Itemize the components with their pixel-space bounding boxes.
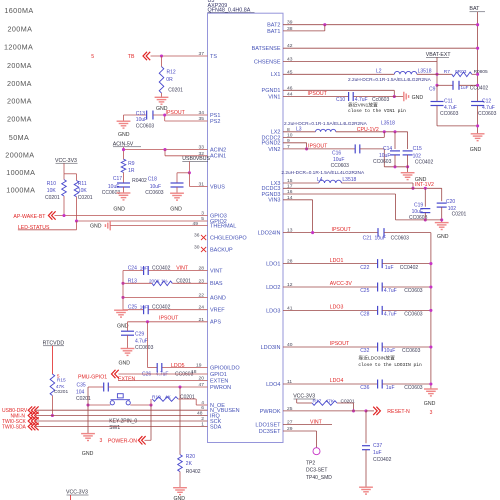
node ACIN-5V on ACIN2 (122, 148, 125, 151)
svg-text:TB: TB (128, 54, 135, 60)
wire R12 bottom lead (161, 93, 163, 97)
wire DCDC2 row (283, 136, 384, 138)
svg-text:VBUS: VBUS (210, 184, 225, 190)
svg-text:PWROK: PWROK (260, 409, 281, 415)
ground C13 (117, 120, 131, 122)
ground C37 (359, 486, 373, 488)
svg-text:L3518: L3518 (418, 69, 432, 75)
svg-text:GND: GND (119, 361, 131, 367)
offpage arrow RESET-N (373, 407, 377, 415)
wire PS1 (153, 114, 208, 116)
node BIAS gnd bus (121, 282, 124, 285)
wire gnd bus left (122, 271, 124, 311)
svg-text:C15: C15 (413, 146, 422, 152)
node C19 bottom (424, 218, 427, 221)
svg-text:ACIN2: ACIN2 (210, 148, 226, 154)
no-connect BACKUP (201, 247, 206, 252)
node ACIN1 join (163, 148, 166, 151)
wire R12 top lead (161, 56, 163, 67)
svg-text:GND: GND (424, 401, 436, 407)
offpage arrow POWER-ON (138, 436, 142, 444)
svg-text:BAT1: BAT1 (267, 29, 280, 35)
node LDO4 rail (429, 382, 432, 385)
svg-text:PGND1: PGND1 (262, 88, 281, 94)
svg-text:R0402: R0402 (186, 469, 201, 475)
node VIN3 on LDO24IN (311, 231, 314, 234)
svg-text:R0402: R0402 (132, 178, 147, 184)
svg-text:LDO3: LDO3 (330, 305, 344, 311)
wire N_OE stub (196, 404, 207, 406)
wire C29 top lead (127, 322, 129, 331)
svg-text:EXTEN: EXTEN (118, 377, 136, 383)
svg-text:PMU-GPIO1: PMU-GPIO1 (78, 375, 107, 381)
resistor R15 (50, 374, 55, 396)
wire C18 to ground (176, 187, 178, 193)
svg-text:TP40_SMD: TP40_SMD (306, 475, 332, 481)
svg-text:CC0603: CC0603 (402, 348, 421, 354)
node C14 top (393, 130, 396, 133)
svg-text:DC3SET: DC3SET (259, 429, 281, 435)
svg-text:GPIO0/LDO: GPIO0/LDO (210, 365, 240, 371)
ground battery caps (471, 133, 485, 135)
svg-text:GPIO1: GPIO1 (210, 372, 227, 378)
svg-text:SW1: SW1 (109, 425, 120, 431)
offpage arrow USB0-DRV (28, 406, 32, 414)
svg-text:GND: GND (117, 323, 129, 329)
svg-text:CC0603: CC0603 (145, 190, 164, 196)
svg-text:GND: GND (412, 95, 424, 101)
wire GPIO2 (77, 220, 208, 222)
svg-text:CC0603: CC0603 (373, 159, 392, 165)
offpage arrow TB (143, 52, 147, 60)
svg-text:ACIN1: ACIN1 (210, 154, 226, 160)
wire VIN3 drop (312, 200, 314, 233)
svg-text:C12: C12 (482, 99, 491, 105)
svg-text:靠近LDO3IN放置: 靠近LDO3IN放置 (358, 354, 395, 361)
svg-text:C0201: C0201 (45, 195, 60, 201)
no-connect CHGLED/GPO (201, 235, 206, 240)
switch SW1 wire right (130, 404, 151, 406)
svg-text:APS: APS (210, 320, 221, 326)
ground C18 (170, 192, 184, 194)
ground C29 (121, 348, 135, 350)
ground R20 (173, 487, 187, 489)
svg-text:4.7uF: 4.7uF (355, 97, 368, 103)
svg-text:C17: C17 (113, 176, 122, 182)
svg-text:C18: C18 (148, 176, 157, 182)
svg-text:L2: L2 (376, 68, 382, 74)
svg-text:L4: L4 (317, 177, 323, 183)
wire C25 to rail (382, 286, 431, 288)
svg-text:1uF: 1uF (386, 385, 395, 391)
svg-text:1600MA: 1600MA (4, 6, 33, 15)
svg-text:VCC-3V3: VCC-3V3 (66, 490, 88, 496)
svg-text:VIN2: VIN2 (268, 147, 280, 153)
resistor R19 (152, 397, 178, 402)
capacitor C15 (407, 132, 409, 149)
svg-text:1uF: 1uF (140, 265, 148, 270)
wire BAT rail (477, 12, 479, 101)
svg-text:50MA: 50MA (9, 133, 29, 142)
svg-text:2000MA: 2000MA (5, 151, 34, 160)
svg-text:R12: R12 (167, 69, 176, 75)
wire PWROK row (283, 410, 366, 412)
switch SW1 wire left (88, 404, 110, 406)
wire CHSENSE row (283, 60, 437, 62)
svg-text:0R03: 0R03 (455, 69, 467, 75)
capacitor C25 ldo2 (377, 283, 379, 292)
wire C29 to ground (127, 335, 129, 348)
svg-text:C11: C11 (444, 99, 453, 105)
resistor R12 (159, 67, 164, 93)
svg-text:3: 3 (100, 438, 103, 444)
capacitor C13 (124, 114, 147, 116)
node LX3 DCDC3 (411, 187, 414, 190)
capacitor C20 (441, 188, 443, 201)
node C19 top (424, 187, 427, 190)
svg-text:IPSOUT: IPSOUT (332, 227, 352, 233)
wire VBUS (188, 173, 190, 187)
wire PGND1 row (283, 89, 394, 91)
wire PGND3 row (283, 193, 396, 195)
svg-text:L3: L3 (296, 127, 302, 133)
svg-text:BAT: BAT (469, 6, 480, 12)
node BAT2 rail (476, 23, 479, 26)
svg-text:C0201: C0201 (76, 396, 91, 402)
svg-text:L3518: L3518 (381, 121, 395, 127)
wire R20 branch (179, 387, 181, 455)
node APS to LDO5 branch (146, 320, 149, 323)
wire VIN1 row (283, 96, 348, 98)
svg-text:CC0603: CC0603 (391, 235, 410, 241)
svg-text:C16: C16 (332, 151, 341, 157)
svg-text:KEY-2PIN_0: KEY-2PIN_0 (109, 419, 137, 425)
node VBAT-EXT on LX1 row (435, 73, 438, 76)
capacitor C21 (377, 228, 379, 237)
wire LDO2 row (283, 286, 377, 288)
node PGND2 VIN2 (305, 147, 308, 150)
svg-text:CC0402: CC0402 (152, 304, 171, 310)
wire C9 row (437, 84, 453, 86)
wire DCDC3 row (283, 187, 442, 189)
svg-text:3: 3 (430, 410, 433, 416)
wire EXTEN row (118, 380, 208, 382)
svg-text:47K: 47K (326, 399, 335, 405)
svg-text:USB0VBUS: USB0VBUS (182, 156, 210, 162)
svg-text:VIN1: VIN1 (268, 94, 280, 100)
svg-text:GND: GND (437, 234, 449, 240)
svg-text:C21: C21 (363, 235, 372, 241)
capacitor C22 (377, 259, 379, 268)
svg-text:SDA: SDA (210, 424, 222, 430)
svg-text:VREF: VREF (210, 308, 225, 314)
svg-text:CC0603: CC0603 (135, 345, 154, 351)
svg-text:10uF: 10uF (150, 184, 161, 190)
node LDO3 rail (429, 309, 432, 312)
wire VINT row (123, 270, 143, 272)
capacitor C25 vref (143, 305, 145, 314)
wire R10 top lead (63, 174, 65, 180)
svg-text:PWRON: PWRON (210, 385, 231, 391)
wire R19 jog right (178, 398, 196, 400)
node R11 GPIO2 (75, 219, 78, 222)
resistor R13 (152, 281, 172, 286)
capacitor C19 (424, 188, 426, 206)
svg-text:1000MA: 1000MA (6, 186, 35, 195)
svg-text:LDO3: LDO3 (266, 308, 280, 314)
resistor R11 (74, 181, 79, 197)
svg-text:1uF: 1uF (461, 85, 469, 90)
svg-text:L3518: L3518 (342, 177, 356, 183)
svg-text:Cc0603: Cc0603 (372, 97, 389, 103)
svg-text:R10: R10 (47, 181, 56, 187)
offpage arrow NMI-N (28, 412, 32, 420)
svg-text:C0201: C0201 (168, 88, 183, 94)
offpage arrow TWI0-SCK (28, 417, 32, 425)
svg-text:BATSENSE: BATSENSE (252, 46, 281, 52)
wire LX3 drop (412, 183, 414, 188)
svg-text:10K: 10K (47, 188, 57, 194)
wire VCC-3V3 stem to R17 jog (296, 399, 298, 403)
wire dcdc3 gnd rail (396, 219, 442, 221)
ground C17 (117, 192, 131, 194)
wire R17 jog down (337, 402, 354, 404)
wire ACIN1 (165, 155, 208, 157)
svg-text:IPSOUT: IPSOUT (308, 91, 328, 97)
ground symbol THERMAL (109, 221, 111, 231)
wire R10 bottom lead (63, 196, 65, 216)
svg-text:2.2uH-DCR=0.1R-1.5A/ELL4LG2R2N: 2.2uH-DCR=0.1R-1.5A/ELL4LG2R2NA (284, 121, 368, 127)
capacitor C35 (103, 383, 105, 392)
wire R11 bottom lead (76, 197, 78, 221)
svg-text:102: 102 (413, 153, 422, 159)
ground dcdc3 (435, 222, 449, 224)
capacitor C14 (394, 132, 396, 149)
wire PGND2 drop (306, 143, 308, 149)
svg-text:TWI0-SDA: TWI0-SDA (2, 425, 27, 431)
op IC U3 AXP209 outline (208, 13, 284, 442)
node C20 bottom (440, 218, 443, 221)
svg-text:CC0603: CC0603 (440, 111, 459, 117)
svg-text:CC0603: CC0603 (404, 312, 423, 318)
node R17 on PWROK row (352, 409, 355, 412)
node PGND1 VIN1 (393, 95, 396, 98)
wire TS pin (151, 55, 208, 57)
svg-text:200MA: 200MA (7, 96, 32, 105)
svg-text:R20: R20 (186, 454, 195, 460)
wire C28 to rail (382, 309, 431, 311)
svg-text:AGND: AGND (210, 295, 226, 301)
svg-text:200K 1%: 200K 1% (149, 278, 168, 283)
wire LDO cap rail (430, 233, 432, 389)
wire VCC-3V3 stem (63, 163, 65, 174)
svg-text:CHGLED/GPO: CHGLED/GPO (210, 235, 247, 241)
node LDO1 rail (429, 262, 432, 265)
svg-text:200MA: 200MA (7, 61, 32, 70)
wire ACIN1 jog (164, 150, 166, 156)
wire BAT2 row (283, 24, 478, 26)
inductor L2 (394, 71, 417, 74)
wire PS2 jog (164, 115, 166, 121)
capacitor C9 (452, 81, 454, 90)
wire LED-STATUS jog up (76, 221, 78, 230)
node VBAT-EXT on C9 row (435, 84, 438, 87)
svg-text:C25: C25 (128, 304, 137, 310)
wire AGND row (123, 296, 208, 298)
wire R11 top lead (76, 174, 78, 181)
svg-text:CC0402: CC0402 (415, 160, 434, 166)
svg-text:4.7uF: 4.7uF (482, 105, 495, 111)
wire VCC-3V3 bottom stem (70, 495, 72, 500)
svg-text:1uF: 1uF (373, 450, 382, 456)
wire BAT1 jog (324, 25, 326, 31)
svg-text:CC0402: CC0402 (373, 457, 392, 463)
svg-text:C0201: C0201 (452, 211, 467, 217)
wire to RESET-N arrow (366, 410, 374, 412)
capacitor C29 (121, 330, 134, 332)
wire LDO1SET row (283, 424, 332, 426)
ground dcdc2 (401, 172, 415, 174)
wire LX3 row (283, 182, 319, 184)
resistor R7 (452, 72, 472, 77)
svg-text:LDO24IN: LDO24IN (258, 231, 281, 237)
wire C13 to ground (123, 115, 125, 121)
wire PGND1 drop (393, 90, 395, 96)
svg-text:R11: R11 (78, 181, 87, 187)
wire LED-STATUS (18, 229, 77, 231)
svg-text:close to the VIN1 pin: close to the VIN1 pin (348, 108, 406, 114)
ground LDO rail (424, 388, 438, 390)
svg-text:5: 5 (91, 54, 94, 60)
wire LX1 row (283, 73, 394, 75)
offpage arrow TWI0-SDA (28, 423, 32, 431)
svg-text:C0201: C0201 (341, 399, 355, 405)
svg-text:GND: GND (82, 451, 94, 457)
wire PWRON row right (108, 386, 207, 388)
svg-text:RTCVDD: RTCVDD (43, 340, 65, 346)
svg-text:EXTEN: EXTEN (210, 378, 228, 384)
node switch right (149, 403, 152, 406)
wire C9 to rail (459, 84, 477, 86)
node BATSENSE rail (476, 47, 479, 50)
offpage arrow PMU-GPIO1 (112, 370, 116, 378)
svg-text:VCC-3V3: VCC-3V3 (55, 158, 77, 164)
svg-text:R9: R9 (128, 161, 135, 167)
wire LDO3IN row (283, 346, 377, 348)
wire to C18 (177, 172, 189, 174)
node switch left (86, 403, 89, 406)
svg-text:1R: 1R (128, 168, 135, 174)
capacitor C11 (436, 85, 438, 101)
node DCDC2 join (383, 130, 386, 133)
svg-text:CC0603: CC0603 (478, 111, 497, 117)
wire VBAT-EXT drop (436, 57, 438, 85)
svg-text:CPU-1V2: CPU-1V2 (357, 127, 379, 133)
svg-text:10uF: 10uF (412, 209, 423, 215)
svg-text:4.7uF: 4.7uF (384, 288, 397, 294)
wire PGND3 drop (395, 194, 397, 220)
wire C17 to ground (123, 187, 125, 193)
svg-text:LDO1: LDO1 (266, 262, 280, 268)
svg-text:VINT: VINT (210, 268, 223, 274)
node TS junction (160, 54, 163, 57)
resistor R20 (178, 455, 183, 472)
wire BIAS row (123, 282, 152, 284)
wire N_VBUSEN row (36, 409, 208, 411)
wire IRQ row (36, 415, 208, 417)
svg-text:GND: GND (174, 496, 186, 500)
ground VIN1 sideways (403, 92, 405, 102)
svg-text:BIAS: BIAS (210, 281, 223, 287)
svg-text:C0201: C0201 (54, 389, 68, 395)
wire C21 right to rail corner (384, 232, 431, 234)
svg-text:10uF: 10uF (375, 235, 386, 241)
wire LDO1 row (283, 263, 377, 265)
wire C36 to rail (382, 383, 431, 385)
svg-text:1uF: 1uF (140, 304, 148, 309)
svg-text:4.7uF: 4.7uF (444, 105, 457, 111)
capacitor C16 (354, 144, 356, 153)
wire LX2 row (283, 131, 316, 133)
svg-text:靠近VIN1放置: 靠近VIN1放置 (348, 102, 378, 109)
svg-text:IPSOUT: IPSOUT (159, 315, 179, 321)
svg-text:CC0603: CC0603 (404, 385, 423, 391)
capacitor C10 (348, 92, 350, 101)
svg-text:2K: 2K (186, 461, 193, 467)
node PWRON R20 branch (178, 385, 181, 388)
wire BAT1 row (283, 30, 325, 32)
wire SDA row (36, 426, 208, 428)
wire VREF row (123, 309, 143, 311)
ground R12 (155, 96, 169, 98)
wire C32 to rail and gnd branch (382, 346, 431, 348)
node LDO2 rail (429, 285, 432, 288)
svg-text:AVCC-3V: AVCC-3V (330, 281, 353, 287)
svg-text:C28: C28 (360, 312, 369, 318)
svg-text:4K: 4K (165, 394, 172, 400)
wire dcdc2 gnd rail (384, 166, 407, 168)
wire C11 bottom (436, 106, 438, 126)
svg-text:GND: GND (470, 147, 482, 153)
capacitor C18 (171, 182, 184, 184)
svg-text:C0201: C0201 (78, 195, 93, 201)
wire PGND2 row (283, 142, 307, 144)
svg-text:C0201: C0201 (176, 278, 191, 284)
svg-text:4.7uF: 4.7uF (135, 338, 148, 344)
svg-text:R15: R15 (57, 377, 66, 383)
svg-text:C19: C19 (414, 203, 423, 209)
svg-text:36: 36 (194, 233, 200, 239)
node R10 GPIO3 (62, 214, 65, 217)
svg-text:VINT: VINT (310, 419, 323, 425)
capacitor C24 (143, 266, 145, 275)
wire VIN3 row (283, 199, 313, 201)
wire R10 R11 tee (64, 173, 77, 175)
svg-text:C32: C32 (360, 348, 369, 354)
node AGND gnd bus (121, 296, 124, 299)
svg-text:ACIN-5V: ACIN-5V (113, 141, 134, 147)
svg-text:LDO2: LDO2 (266, 285, 280, 291)
wire THERMAL (110, 225, 207, 227)
svg-text:10K: 10K (78, 188, 88, 194)
wire ACIN2 (124, 149, 208, 151)
svg-text:C20: C20 (446, 199, 455, 205)
svg-text:10uF: 10uF (333, 157, 344, 163)
wire C11 C12 gnd rail (437, 125, 478, 127)
wire C16 drop to gnd rail (383, 149, 385, 167)
svg-text:IPSOUT: IPSOUT (308, 143, 328, 149)
svg-text:10uF: 10uF (379, 153, 390, 159)
